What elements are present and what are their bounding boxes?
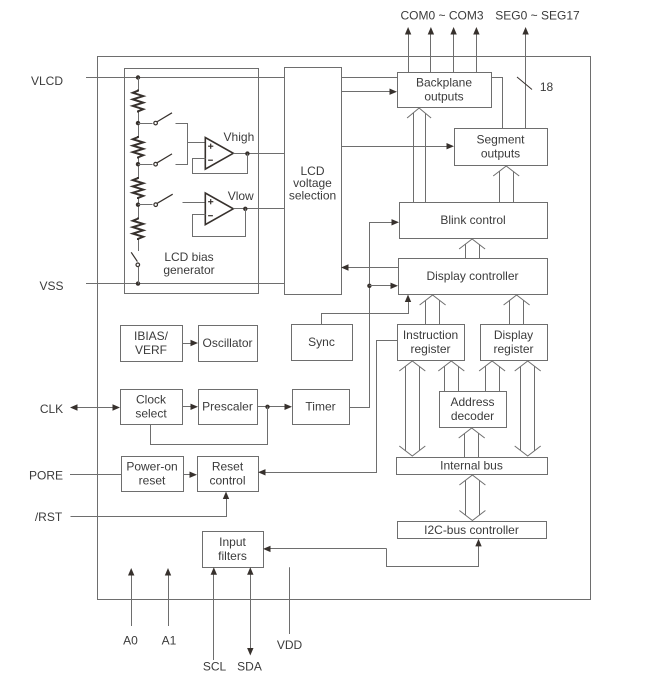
- wire Vlow output: [233, 208, 284, 210]
- box Backplane outputs: [398, 73, 492, 108]
- svg-text:/RST: /RST: [35, 510, 63, 524]
- switch S1 lever: [157, 113, 172, 122]
- wire VDD: [289, 567, 291, 634]
- svg-text:selection: selection: [289, 188, 336, 202]
- wire ladder segment 4: [138, 240, 140, 251]
- box Sync: [292, 325, 353, 361]
- wire Vlow feedback: [193, 209, 246, 237]
- svg-text:outputs: outputs: [424, 90, 463, 104]
- box Blink control: [400, 203, 548, 239]
- switch S1 stub: [138, 123, 153, 125]
- svg-text:I2C-bus controller: I2C-bus controller: [424, 523, 519, 537]
- wire i2c controller input filters: [270, 548, 387, 550]
- box Input filters: [203, 532, 264, 568]
- svg-text:Clock: Clock: [136, 393, 167, 407]
- box Prescaler: [199, 390, 258, 425]
- wire arrow into backplane outputs: [341, 91, 391, 93]
- svg-text:Timer: Timer: [305, 400, 335, 414]
- wire COM0 output arrow: [408, 34, 410, 72]
- svg-text:CLK: CLK: [40, 402, 63, 416]
- switch S3 stub: [138, 204, 153, 206]
- box Reset control: [198, 457, 259, 492]
- svg-text:Vhigh: Vhigh: [224, 130, 255, 144]
- box Oscillator: [199, 326, 258, 362]
- svg-text:Internal bus: Internal bus: [440, 459, 503, 473]
- node prescaler output junction: [265, 405, 269, 409]
- node ladder node 3: [136, 203, 140, 207]
- svg-text:SEG0 ~ SEG17: SEG0 ~ SEG17: [495, 9, 580, 23]
- wire /RST to reset control: [71, 499, 227, 517]
- switch S1 contact: [154, 121, 158, 125]
- svg-text:decoder: decoder: [451, 409, 494, 423]
- svg-text:A0: A0: [123, 634, 138, 648]
- switch S3 lever: [157, 194, 172, 203]
- switch S3 contact: [154, 203, 158, 207]
- wire A0 input: [131, 575, 133, 627]
- wire backplane to segment outputs: [492, 78, 503, 129]
- wire bracket to Vhigh input: [176, 124, 188, 165]
- svg-text:LCD bias: LCD bias: [164, 250, 213, 264]
- svg-text:Display: Display: [494, 328, 533, 342]
- resistor R2: [133, 136, 143, 159]
- wire clock select to prescaler: [182, 406, 192, 408]
- svg-text:filters: filters: [218, 549, 247, 563]
- svg-text:SDA: SDA: [237, 660, 262, 674]
- wire prescaler feedback to clock select: [151, 407, 268, 445]
- svg-text:Sync: Sync: [308, 335, 335, 349]
- svg-text:COM0 ~ COM3: COM0 ~ COM3: [400, 9, 483, 23]
- node Vhigh output junction: [245, 151, 249, 155]
- wire timer to blink control: [350, 223, 393, 408]
- svg-text:Address: Address: [450, 395, 494, 409]
- wire sync to display controller: [322, 302, 409, 325]
- node ladder node 2: [136, 162, 140, 166]
- node Vlow output junction: [243, 207, 247, 211]
- svg-text:control: control: [209, 474, 245, 488]
- outer frame: [98, 57, 591, 600]
- bus arrow blink to segment outputs: [493, 166, 519, 176]
- bus arrow blink to backplane: [407, 108, 431, 118]
- box Address decoder: [440, 392, 507, 428]
- svg-text:reset: reset: [139, 474, 166, 488]
- box Internal bus: [397, 458, 548, 475]
- bus width tick: [517, 77, 532, 90]
- svg-text:Backplane: Backplane: [416, 76, 472, 90]
- switch S2 contact: [154, 162, 158, 166]
- wire COM2 output arrow: [453, 34, 455, 72]
- wire ladder segment 1: [138, 113, 140, 137]
- box LCD voltage selection: [285, 68, 342, 295]
- op-amp Vhigh: [205, 138, 233, 170]
- bus arrow address decoder to display reg: [479, 361, 505, 371]
- node ladder node 1: [136, 121, 140, 125]
- svg-text:select: select: [135, 407, 167, 421]
- node VLCD-ladder junction: [136, 75, 140, 79]
- box Clock select: [121, 390, 183, 425]
- bus arrow display reg internal bus: [515, 361, 541, 371]
- svg-text:register: register: [493, 342, 533, 356]
- svg-text:Reset: Reset: [212, 460, 244, 474]
- wire display controller to LCD voltage selection: [348, 267, 399, 269]
- box Segment outputs: [455, 129, 548, 166]
- svg-text:Vlow: Vlow: [228, 189, 254, 203]
- svg-text:Segment: Segment: [476, 133, 525, 147]
- wire CLK bidirectional: [76, 407, 114, 409]
- svg-text:Prescaler: Prescaler: [202, 400, 253, 414]
- svg-text:A1: A1: [162, 634, 177, 648]
- bus arrow display reg to display ctl: [504, 295, 530, 305]
- wire prescaler to timer: [257, 406, 286, 408]
- wire SEG output arrow: [525, 34, 527, 128]
- svg-text:generator: generator: [163, 263, 214, 277]
- svg-text:Blink control: Blink control: [440, 213, 505, 227]
- wire instruction register to reset control: [265, 341, 398, 473]
- wire arrow into segment outputs: [341, 146, 448, 148]
- svg-text:18: 18: [540, 80, 554, 94]
- wire SDA bidirectional: [250, 574, 252, 649]
- wire IBIAS to oscillator: [182, 343, 192, 345]
- resistor R1: [133, 90, 143, 113]
- bus arrow internal bus i2c controller: [459, 475, 485, 485]
- wire A1 input: [168, 575, 170, 627]
- wire power-on reset to reset control: [183, 474, 191, 476]
- wire COM3 output arrow: [476, 34, 478, 72]
- resistor R4: [133, 218, 143, 241]
- box Instruction register: [398, 325, 465, 361]
- wire Vlow input: [183, 202, 206, 204]
- svg-text:Input: Input: [219, 535, 246, 549]
- box I2C-bus controller: [398, 522, 547, 539]
- box Power-on reset: [122, 457, 184, 492]
- svg-text:Instruction: Instruction: [403, 328, 458, 342]
- wire junction to display controller: [369, 285, 391, 287]
- bus arrow address decoder to instruction reg: [438, 361, 464, 371]
- node timer line junction: [367, 284, 371, 288]
- node VSS-ladder junction: [136, 281, 140, 285]
- switch S4 contact: [136, 263, 140, 267]
- svg-text:VSS: VSS: [39, 279, 63, 293]
- wire ladder segment 3: [138, 199, 140, 218]
- op-amp Vlow: [205, 193, 233, 225]
- box Display register: [481, 325, 548, 361]
- svg-text:PORE: PORE: [29, 469, 63, 483]
- bus arrow display ctl to blink: [459, 239, 485, 249]
- svg-text:Power-on: Power-on: [126, 460, 177, 474]
- box Timer: [293, 390, 350, 425]
- resistor R3: [133, 177, 143, 199]
- svg-text:outputs: outputs: [481, 147, 520, 161]
- box IBIAS/VERF: [121, 326, 183, 362]
- wire VSS rail: [86, 283, 284, 285]
- bus arrow instruction reg internal bus: [399, 361, 425, 371]
- wire VLCD to backplane: [341, 77, 397, 79]
- wire ladder segment 2: [138, 159, 140, 178]
- wire ladder segment 5: [138, 267, 140, 284]
- box LCD bias generator: [125, 69, 259, 294]
- svg-text:IBIAS/: IBIAS/: [134, 329, 169, 343]
- wire Vhigh output: [233, 153, 284, 155]
- wire SCL input: [213, 574, 215, 660]
- bus arrow internal bus to address decoder: [459, 428, 485, 438]
- svg-text:Display controller: Display controller: [426, 269, 518, 283]
- wire PORE: [70, 474, 121, 476]
- switch S2 stub: [138, 164, 153, 166]
- svg-text:register: register: [410, 342, 450, 356]
- wire Vhigh feedback: [193, 154, 248, 174]
- svg-text:SCL: SCL: [203, 660, 227, 674]
- bus arrow instruction reg to display ctl: [420, 295, 446, 305]
- switch S2 lever: [157, 154, 172, 163]
- wire ladder segment top: [138, 78, 140, 90]
- svg-text:Oscillator: Oscillator: [202, 336, 252, 350]
- wire COM1 output arrow: [430, 34, 432, 72]
- svg-text:VERF: VERF: [135, 343, 167, 357]
- box Display controller: [399, 259, 548, 295]
- switch S4 lever: [131, 252, 137, 261]
- svg-text:VDD: VDD: [277, 638, 303, 652]
- wire VLCD rail: [86, 77, 284, 79]
- svg-text:VLCD: VLCD: [31, 74, 63, 88]
